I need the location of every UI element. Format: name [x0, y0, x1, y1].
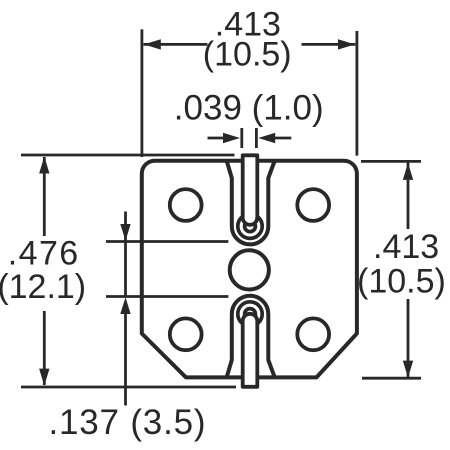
dimension line .413 right lower segment	[407, 299, 410, 377]
top lead	[243, 155, 258, 225]
arrowhead .413 right up	[403, 163, 413, 180]
dimension arrow .039 left pointing right	[208, 137, 225, 140]
svg-text:.039 (1.0): .039 (1.0)	[174, 89, 324, 128]
hole top-right	[297, 189, 329, 221]
central circle	[230, 250, 269, 289]
dimension line .476 lower segment	[43, 311, 46, 385]
svg-text:.137 (3.5): .137 (3.5)	[49, 403, 207, 442]
arrowhead .476 up	[39, 157, 49, 174]
extension line top-left vertical for top width dim	[140, 29, 143, 157]
arrowhead .413 top right	[338, 39, 355, 49]
leader line .137 upper tail	[124, 212, 127, 242]
svg-text:.476: .476	[8, 235, 80, 273]
dimension arrow .039 right pointing left	[274, 137, 291, 140]
extension line left-bottom at lead bottom tip level	[21, 386, 236, 389]
bottom slot outer ring	[238, 302, 262, 326]
svg-text:.413: .413	[373, 228, 439, 266]
extension line .039 left	[240, 128, 243, 148]
bottom slot outline with flared mouth	[227, 296, 275, 377]
dimension line .137 upper	[106, 240, 228, 243]
svg-text:(10.5): (10.5)	[357, 263, 446, 301]
extension line top-right vertical for top width dim	[355, 31, 358, 156]
leader line .137 middle	[124, 242, 127, 297]
dimension line .476 upper segment	[43, 157, 46, 236]
top slot outline with flared mouth	[227, 162, 275, 245]
top slot inner ring	[245, 221, 256, 232]
arrowhead .476 down	[39, 369, 49, 386]
plate outline	[142, 161, 357, 378]
arrowhead .137 down	[120, 224, 130, 241]
svg-text:(10.5): (10.5)	[203, 36, 292, 74]
dimension line .413 top right segment	[302, 43, 356, 46]
dimension line .413 right upper segment	[407, 163, 410, 230]
arrowhead .137 up	[120, 297, 130, 314]
hole bottom-right	[297, 318, 329, 350]
extension line right-bottom at plate bottom edge	[362, 377, 421, 380]
dimension line .137 lower	[106, 295, 228, 298]
extension line right-top at plate top edge	[361, 160, 421, 163]
top slot outer ring	[238, 214, 262, 238]
hole bottom-left	[170, 318, 202, 350]
bottom slot inner ring	[245, 309, 256, 320]
arrowhead .413 top left	[144, 39, 161, 49]
extension line left-top at lead top tip level	[21, 154, 235, 157]
arrowhead .413 right down	[403, 361, 413, 378]
hole top-left	[170, 189, 202, 221]
svg-text:(12.1): (12.1)	[0, 268, 86, 306]
bottom lead	[243, 314, 258, 387]
leader line .137 lower tail	[124, 313, 127, 406]
dimension line .413 top left segment	[144, 43, 208, 46]
extension line .039 right	[255, 128, 258, 148]
